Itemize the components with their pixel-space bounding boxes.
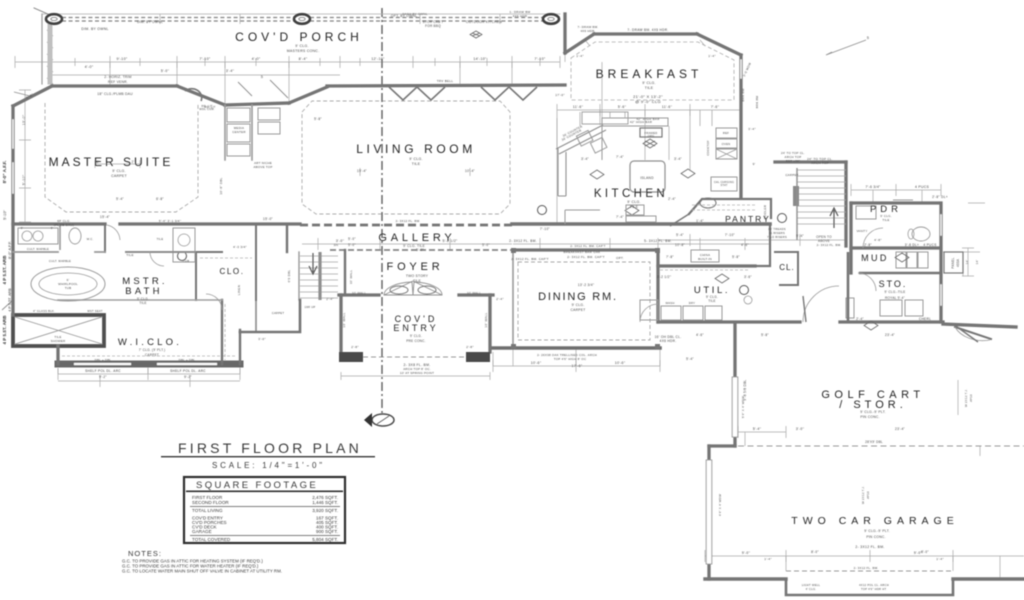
svg-text:9' CLG.: 9' CLG.	[627, 200, 640, 204]
svg-text:5,804 SQFT.: 5,804 SQFT.	[312, 537, 338, 542]
fan diamond kitchen mid	[590, 170, 604, 179]
svg-text:18" CLG./PLMB DAU: 18" CLG./PLMB DAU	[97, 92, 133, 96]
kitchen bar diagonal counter	[556, 125, 606, 154]
media center boxes	[227, 108, 250, 122]
svg-text:KITCHEN: KITCHEN	[594, 188, 668, 200]
svg-text:4 PUCS: 4 PUCS	[915, 185, 929, 189]
svg-text:TRV BELL: TRV BELL	[437, 79, 454, 83]
pantry circle	[700, 198, 716, 208]
kitchen prep boxes	[626, 205, 644, 215]
svg-text:3'-0": 3'-0"	[796, 427, 805, 431]
svg-text:10' WALL: 10' WALL	[467, 291, 482, 295]
entry arch dashed	[363, 356, 466, 358]
dim line golf cart right rotated	[957, 380, 959, 415]
svg-text:SCALE: 1/4"=1'-0": SCALE: 1/4"=1'-0"	[212, 461, 325, 470]
beam gallery north dashed	[300, 224, 512, 227]
svg-text:COV'D PORCH: COV'D PORCH	[235, 30, 363, 44]
svg-text:NOTES:: NOTES:	[128, 549, 162, 558]
wall PDR bottom / mud top	[851, 246, 938, 249]
pdr toilet	[912, 227, 930, 241]
svg-text:9'-8 5/8 DBL: 9'-8 5/8 DBL	[743, 379, 747, 400]
svg-text:13'-0": 13'-0"	[22, 114, 26, 125]
svg-text:TUB: TUB	[183, 259, 190, 263]
svg-text:4'-8": 4'-8"	[874, 238, 881, 242]
wall wicl left jog	[56, 346, 59, 364]
wall wicl right	[222, 300, 240, 364]
shower X brace	[15, 317, 102, 344]
svg-text:23'-4": 23'-4"	[895, 427, 905, 431]
svg-text:SHELF POL DL. ARC: SHELF POL DL. ARC	[85, 369, 121, 373]
window master left overlay	[12, 120, 14, 193]
svg-text:3'-4": 3'-4"	[674, 157, 682, 161]
svg-text:BUILT-IN: BUILT-IN	[698, 257, 712, 261]
circled tag 1	[178, 252, 187, 261]
svg-text:COOKTOP: COOKTOP	[706, 140, 710, 155]
svg-text:4 PUCS: 4 PUCS	[923, 243, 936, 247]
svg-text:5'-4": 5'-4"	[796, 234, 804, 238]
window east overlay	[940, 215, 942, 305]
svg-text:5'-4": 5'-4"	[116, 197, 124, 201]
svg-text:7'-8": 7'-8"	[666, 255, 674, 259]
wall clo master	[196, 224, 256, 300]
svg-text:3'-8 DL+: 3'-8 DL+	[905, 243, 919, 247]
svg-text:STO.: STO.	[879, 279, 908, 289]
svg-text:2- 3X12 FL. BM.: 2- 3X12 FL. BM.	[396, 219, 421, 223]
svg-text:1'-4": 1'-4"	[696, 219, 704, 223]
wall garage west	[707, 446, 710, 579]
svg-text:TOP 4'6" HDR HT.: TOP 4'6" HDR HT.	[861, 587, 887, 591]
svg-text:9': 9'	[753, 162, 756, 166]
svg-text:4 P 5.5T. ARB: 4 P 5.5T. ARB	[2, 315, 7, 345]
wall shower box	[13, 315, 104, 346]
svg-text:REF +36": REF +36"	[786, 159, 801, 163]
svg-text:8'-4": 8'-4"	[299, 57, 308, 61]
stairs foyer rail	[318, 252, 321, 300]
svg-text:5'-0": 5'-0"	[348, 237, 356, 241]
leader master corner	[238, 80, 288, 98]
svg-text:7'-4": 7'-4"	[616, 215, 624, 219]
wall stair hall east	[844, 162, 847, 246]
wall garage bottom	[705, 577, 1024, 580]
wall sto top	[860, 272, 941, 274]
wall master bay left diagonal	[13, 86, 52, 106]
svg-text:5'-8": 5'-8"	[314, 117, 322, 121]
section cut line	[381, 8, 383, 413]
svg-text:4X6 HDR.: 4X6 HDR.	[660, 339, 677, 343]
wire porch top edge	[42, 13, 560, 15]
svg-text:15'-4": 15'-4"	[357, 169, 367, 173]
svg-text:ISLAND: ISLAND	[640, 176, 654, 180]
svg-text:SECOND FLOOR: SECOND FLOOR	[192, 500, 229, 505]
wall breakfast left diagonal	[565, 34, 594, 53]
svg-text:CENTER: CENTER	[232, 130, 246, 134]
svg-text:MASTERS CONC.: MASTERS CONC.	[287, 49, 320, 53]
svg-text:15'-4": 15'-4"	[100, 215, 110, 219]
svg-text:TILE: TILE	[157, 237, 164, 241]
svg-text:ROYAL 5'-4": ROYAL 5'-4"	[885, 296, 905, 300]
svg-text:9'-10": 9'-10"	[117, 57, 128, 61]
svg-text:9' CLG.: 9' CLG.	[295, 44, 308, 48]
dim line y14 porch top ticks	[160, 14, 500, 24]
fan diamond util	[715, 274, 729, 283]
dim ticks extra top row	[75, 58, 540, 66]
washer dryer	[661, 306, 681, 320]
svg-text:W.C.: W.C.	[87, 237, 94, 241]
svg-text:FOYER: FOYER	[387, 261, 444, 273]
svg-text:1'-4": 1'-4"	[576, 54, 583, 58]
window golf cart west	[732, 377, 738, 437]
svg-text:OPG: OPG	[648, 134, 655, 138]
porch ceiling dashed line	[62, 17, 543, 19]
mud door leaf	[803, 296, 806, 322]
svg-text:PIN CONC.: PIN CONC.	[860, 415, 879, 419]
up arrow	[830, 208, 838, 228]
svg-text:10'-8" DBL: 10'-8" DBL	[219, 177, 223, 194]
util sink circle	[744, 296, 752, 304]
svg-text:9' CLG.: 9' CLG.	[410, 334, 422, 338]
svg-text:TUB: TUB	[65, 286, 72, 290]
svg-text:W 2X12 T.J.: W 2X12 T.J.	[964, 389, 968, 407]
dim line living interior	[360, 168, 470, 176]
svg-text:STAT: STAT	[720, 183, 727, 187]
svg-text:3': 3'	[21, 226, 24, 230]
entry fan door	[384, 281, 442, 295]
breakfast bay dim diagonal ticks	[585, 40, 705, 46]
svg-text:10'-4": 10'-4"	[465, 169, 475, 173]
svg-text:BRK BM: BRK BM	[741, 88, 745, 102]
wall pantry	[689, 199, 771, 218]
svg-text:G.C. TO LOCATE WATER MAIN SHUT: G.C. TO LOCATE WATER MAIN SHUT OFF VALVE…	[122, 569, 282, 574]
column marker porch 1	[46, 14, 62, 24]
leader left arrow	[2, 92, 30, 310]
svg-text:TWO CAR GARAGE: TWO CAR GARAGE	[791, 515, 958, 527]
cabinet charging box	[711, 177, 737, 191]
stairs back treads	[797, 170, 846, 224]
pdr window sill	[893, 199, 913, 201]
wall closet CL	[775, 252, 798, 285]
svg-text:17'-6": 17'-6"	[572, 364, 583, 368]
title block	[122, 440, 375, 574]
wall porch east vertical	[563, 14, 566, 53]
svg-text:16R UP: 16R UP	[305, 305, 316, 309]
svg-text:2- 3X12 FL. BM.: 2- 3X12 FL. BM.	[509, 239, 537, 243]
svg-text:3'-4": 3'-4"	[748, 127, 755, 131]
fan diamond breakfast right	[681, 169, 695, 178]
fan diamond kitchen low	[625, 206, 639, 215]
wall bath-wicl divider	[58, 299, 222, 301]
svg-text:DIM. BY OWNL: DIM. BY OWNL	[137, 20, 163, 24]
svg-text:CLO.: CLO.	[219, 267, 244, 276]
pdr door arc	[863, 228, 883, 248]
svg-text:@ 9'-0" CLG: @ 9'-0" CLG	[635, 99, 661, 104]
svg-text:2- 3X12 FL. BM. CAP'T: 2- 3X12 FL. BM. CAP'T	[570, 244, 605, 248]
svg-text:4' CLG.: 4' CLG.	[806, 587, 817, 591]
dim line left lower verticals	[58, 364, 240, 374]
wall foyer front left	[339, 293, 379, 296]
square footage table frame	[184, 477, 345, 543]
svg-text:10'-6": 10'-6"	[615, 361, 626, 365]
wall stair hall top	[775, 160, 846, 163]
svg-text:CARPET: CARPET	[145, 353, 159, 357]
svg-text:8'-0": 8'-0"	[811, 550, 819, 554]
svg-text:DBL + DBL: DBL + DBL	[95, 358, 112, 362]
window breakfast right overlay	[740, 60, 742, 78]
svg-text:MST SEAT: MST SEAT	[87, 309, 102, 313]
dim line dining verticals	[513, 348, 660, 366]
dim verticals entry	[341, 372, 490, 380]
dim verticals to porch	[110, 62, 512, 105]
svg-text:15'-0": 15'-0"	[263, 217, 273, 221]
wicl door arc	[206, 294, 222, 310]
wall entry left	[339, 295, 342, 352]
svg-text:SHELF POL DL. ARC: SHELF POL DL. ARC	[170, 369, 206, 373]
wall south wing y322	[658, 320, 943, 323]
svg-text:9' CLG.: 9' CLG.	[572, 303, 585, 307]
bath door arc	[107, 225, 120, 240]
wall garage jog	[709, 444, 735, 447]
dining niche columns	[511, 248, 516, 253]
svg-text:3'-4": 3'-4"	[581, 157, 589, 161]
svg-text:TOTAL LIVING: TOTAL LIVING	[192, 508, 223, 513]
dim line master interior	[95, 160, 140, 168]
fan diamond mud	[895, 253, 909, 262]
svg-text:9' CLG.: 9' CLG.	[409, 157, 422, 161]
corner arc window master	[185, 89, 202, 101]
svg-text:4 P 5.5T. ARB: 4 P 5.5T. ARB	[2, 255, 7, 285]
svg-text:4 P 5.5T. ARB: 4 P 5.5T. ARB	[8, 288, 12, 312]
svg-text:9' CLG.-TILE: 9' CLG.-TILE	[885, 290, 906, 294]
sto cabinets	[880, 300, 902, 316]
svg-text:3,920 SQFT.: 3,920 SQFT.	[312, 508, 338, 513]
dim line top secondary	[52, 46, 565, 75]
window garage west	[706, 460, 712, 564]
mud wall west	[847, 252, 850, 322]
attic access diamond	[864, 321, 878, 330]
svg-text:DIM. BY OWNL: DIM. BY OWNL	[81, 27, 108, 31]
svg-text:3'-2 1/2": 3'-2 1/2"	[657, 275, 671, 279]
svg-text:W 2X12 T.J.: W 2X12 T.J.	[861, 486, 865, 504]
svg-text:REF VENR.: REF VENR.	[108, 80, 128, 84]
svg-text:TILE: TILE	[645, 86, 654, 90]
svg-text:4'-6": 4'-6"	[696, 333, 704, 337]
svg-text:9'-2": 9'-2"	[184, 375, 192, 379]
svg-text:5'-4": 5'-4"	[676, 233, 684, 237]
svg-text:7'-4": 7'-4"	[616, 155, 624, 159]
wall main corridor north y224	[512, 222, 770, 226]
svg-text:900 SQFT.: 900 SQFT.	[316, 529, 338, 534]
wall foyer left	[344, 250, 346, 295]
svg-text:14'-10": 14'-10"	[473, 57, 487, 61]
dining ceiling dashed	[518, 262, 650, 340]
island	[630, 161, 665, 192]
clo door arc	[150, 252, 164, 266]
porch hatch diagonals	[47, 30, 53, 84]
util door arc	[640, 304, 658, 322]
hall wall south	[125, 251, 196, 253]
svg-text:CARPET: CARPET	[785, 173, 798, 177]
svg-text:2'-4": 2'-4"	[326, 297, 333, 301]
bath toilet room walls	[59, 225, 61, 250]
svg-text:28'X9' DBL: 28'X9' DBL	[865, 440, 883, 444]
svg-text:TILE: TILE	[139, 301, 147, 305]
svg-text:14': 14'	[975, 259, 979, 264]
svg-text:13'-2 3/4": 13'-2 3/4"	[578, 283, 594, 287]
svg-text:4'-0": 4'-0"	[252, 57, 261, 61]
svg-text:2- 3X12 FL. BM. CAP'T: 2- 3X12 FL. BM. CAP'T	[567, 255, 605, 259]
svg-text:CARPET: CARPET	[272, 311, 285, 315]
svg-text:10' AT SPRING POINT: 10' AT SPRING POINT	[400, 371, 434, 375]
svg-text:8'-0": 8'-0"	[921, 550, 929, 554]
wall entry right	[488, 295, 491, 352]
svg-text:7'-6": 7'-6"	[711, 105, 720, 109]
wall bath left exterior	[11, 224, 14, 315]
section marker	[372, 414, 394, 426]
svg-text:4X6 HDR.: 4X6 HDR.	[580, 29, 595, 33]
svg-text:VANITY: VANITY	[856, 229, 867, 233]
svg-text:2'-8" DL+: 2'-8" DL+	[932, 195, 948, 199]
svg-text:5'-10": 5'-10"	[22, 174, 26, 185]
svg-text:TILE: TILE	[630, 205, 639, 209]
svg-text:DBL + DBL: DBL + DBL	[179, 358, 196, 362]
svg-text:CARPET: CARPET	[571, 308, 586, 312]
svg-text:7- DRAW BM. 4X6 HDR.: 7- DRAW BM. 4X6 HDR.	[627, 28, 668, 32]
svg-text:BRK BM: BRK BM	[755, 95, 759, 108]
svg-text:OPT.: OPT.	[616, 256, 624, 260]
svg-text:BATH: BATH	[125, 286, 162, 297]
svg-text:5- 3X12 FL. BM.: 5- 3X12 FL. BM.	[644, 239, 672, 243]
dim row gallery ticks more	[513, 238, 770, 250]
window wicl bottom overlay	[75, 363, 216, 365]
garage head dashed	[738, 445, 1024, 447]
wall stair west rail	[298, 252, 300, 300]
svg-text:COOLER: COOLER	[763, 204, 767, 219]
svg-text:BREAKFAST BAR OAK: BREAKFAST BAR OAK	[564, 250, 601, 254]
svg-text:OUTDOOR KITCHEN: OUTDOOR KITCHEN	[466, 20, 503, 24]
svg-text:5'-0": 5'-0"	[161, 69, 170, 73]
svg-text:1'-4": 1'-4"	[764, 557, 771, 561]
svg-text:5'-4": 5'-4"	[686, 357, 694, 361]
wall breakfast top	[594, 32, 697, 35]
beam gallery south dashed	[330, 249, 513, 251]
kitchen cabinet lines top	[580, 110, 712, 126]
svg-text:1'-4": 1'-4"	[708, 54, 715, 58]
svg-text:14': 14'	[965, 259, 969, 264]
svg-text:5'-8": 5'-8"	[761, 333, 769, 337]
stairs back rail	[796, 168, 798, 240]
dim line breakfast y110	[557, 104, 741, 116]
svg-text:4'-0": 4'-0"	[85, 65, 94, 69]
svg-text:10' WALL: 10' WALL	[349, 270, 353, 285]
entry columns	[339, 352, 363, 362]
window bay living 1	[389, 87, 445, 100]
framed opg box	[640, 128, 662, 137]
rear door leaf	[953, 324, 978, 342]
dim line right of pdr vertical	[962, 203, 985, 276]
svg-text:8': 8'	[97, 160, 100, 164]
fixtures layer	[18, 14, 990, 427]
svg-text:4'4" X 4' WDW: 4'4" X 4' WDW	[718, 494, 722, 516]
svg-text:5'-2 1/2": 5'-2 1/2"	[442, 239, 458, 243]
leader breakfast corner	[826, 40, 866, 55]
svg-text:WASH: WASH	[665, 301, 674, 305]
master ceiling dashed octagon	[45, 103, 198, 212]
svg-text:CL.: CL.	[779, 263, 794, 272]
pdr vanity	[856, 206, 876, 219]
svg-text:8'-0" A.F.F.: 8'-0" A.F.F.	[8, 241, 12, 259]
svg-text:7'-6 3/4": 7'-6 3/4"	[865, 185, 881, 189]
svg-text:10' WALL: 10' WALL	[352, 291, 367, 295]
svg-text:5'-10": 5'-10"	[3, 210, 7, 220]
svg-text:#P10: #P10	[866, 491, 870, 499]
wall breakfast right exterior	[739, 55, 742, 198]
dim util strip	[658, 234, 770, 246]
svg-text:TILE: TILE	[412, 162, 421, 166]
wall PDR left	[849, 203, 852, 273]
stairs foyer treads	[300, 256, 338, 298]
hall closet wall	[255, 300, 257, 332]
wall dining bottom	[493, 346, 660, 350]
wall bath hall divider	[104, 224, 106, 252]
util shelf dashed	[660, 269, 750, 271]
svg-text:OVEN: OVEN	[722, 142, 731, 146]
svg-text:17'-0": 17'-0"	[555, 93, 564, 97]
garage door dashed	[786, 570, 953, 572]
wire porch west wall	[41, 14, 43, 84]
dim line garage inner verticals	[745, 432, 953, 571]
master niche boxes lower	[258, 108, 280, 120]
svg-text:CULT. MARBLE: CULT. MARBLE	[49, 259, 71, 263]
svg-text:MASTER SUITE: MASTER SUITE	[49, 155, 174, 169]
svg-text:2'-8": 2'-8"	[466, 345, 473, 349]
svg-text:9'-0": 9'-0"	[742, 551, 751, 555]
tub oval	[31, 267, 105, 301]
circled tag 3	[778, 214, 787, 223]
wall angled entry bay	[955, 327, 991, 339]
svg-text:2- 3X12 FL. BM.: 2- 3X12 FL. BM.	[855, 545, 884, 549]
svg-text:CHERL: CHERL	[919, 317, 931, 321]
wall living room top	[327, 85, 565, 86]
kitchen cooktop boxes	[576, 130, 593, 146]
svg-text:PIN CONC.: PIN CONC.	[866, 535, 885, 539]
wall living room west diagonal	[289, 87, 327, 103]
svg-text:LINEN: LINEN	[237, 285, 241, 295]
mud lockers	[896, 252, 906, 268]
svg-text:TILE: TILE	[882, 218, 889, 222]
vanity master bath	[18, 228, 58, 244]
wall bath mid	[13, 251, 105, 253]
wall util top	[658, 264, 755, 267]
svg-text:CARPET: CARPET	[111, 174, 127, 178]
svg-text:ABOVE TOP: ABOVE TOP	[253, 165, 272, 169]
mud bench	[846, 298, 854, 318]
svg-text:2- 3X12 FL. BM. CAP'T: 2- 3X12 FL. BM. CAP'T	[511, 257, 549, 261]
svg-text:GARAGE: GARAGE	[192, 529, 212, 534]
svg-text:BREAKFAST: BREAKFAST	[596, 67, 703, 81]
svg-text:8'-0" A.F.F.: 8'-0" A.F.F.	[2, 161, 7, 184]
svg-text:7'-10": 7'-10"	[725, 233, 735, 237]
svg-text:7' CLG. (9' PLT.): 7' CLG. (9' PLT.)	[139, 348, 166, 352]
svg-text:PANEL: PANEL	[951, 257, 955, 268]
svg-text:2- 3X12 FL. BM.: 2- 3X12 FL. BM.	[854, 566, 879, 570]
pantry shelves dashed	[692, 205, 756, 210]
svg-text:DRY: DRY	[689, 301, 695, 305]
svg-text:11'-6": 11'-6"	[573, 105, 584, 109]
svg-text:DINING RM.: DINING RM.	[538, 291, 618, 303]
wall media center column	[225, 105, 252, 160]
kitchen counter inner edge	[602, 125, 668, 127]
svg-text:9'-2": 9'-2"	[99, 375, 107, 379]
svg-text:SQUARE FOOTAGE: SQUARE FOOTAGE	[196, 480, 318, 491]
